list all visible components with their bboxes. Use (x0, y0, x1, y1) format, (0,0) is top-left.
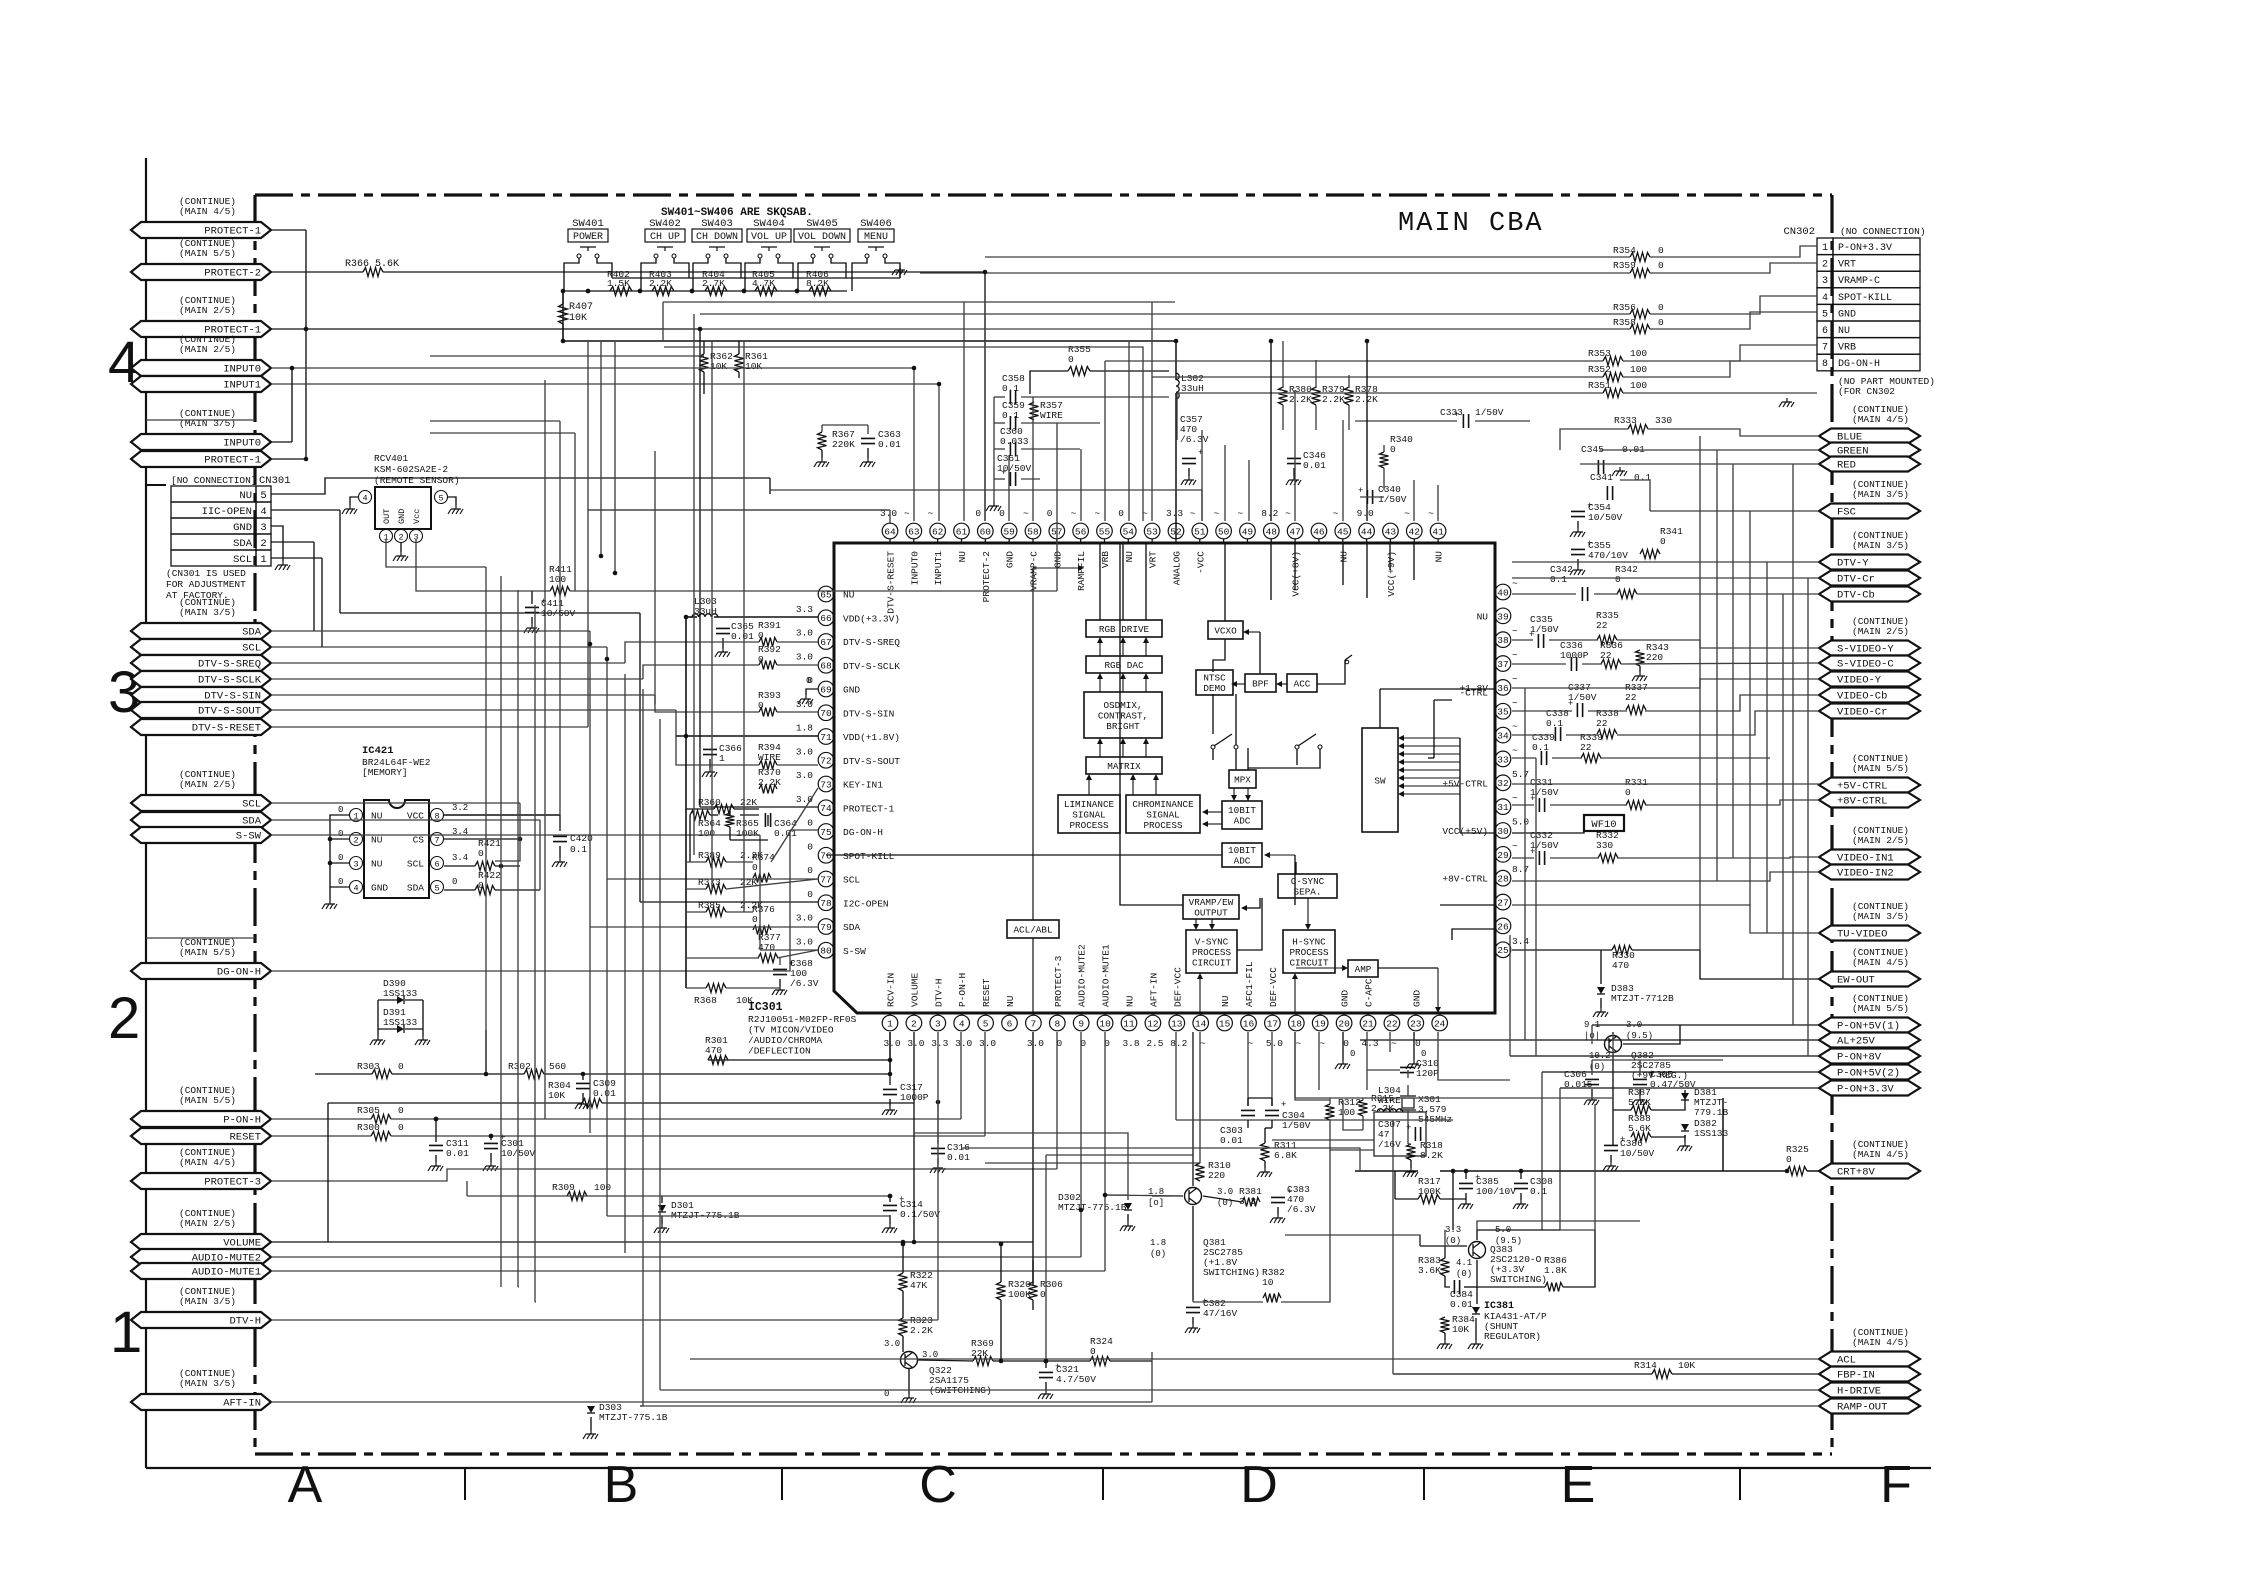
svg-text:PROCESS: PROCESS (1143, 820, 1182, 831)
wire pin13 drop (1175, 1032, 1177, 1120)
svg-text:CIRCUIT: CIRCUIT (1192, 957, 1231, 968)
switch transfer gate A (1211, 734, 1238, 760)
svg-text:17: 17 (1267, 1018, 1278, 1029)
svg-text:~: ~ (1428, 508, 1434, 519)
svg-text:[MEMORY]: [MEMORY] (362, 767, 408, 778)
resistor R365 100K (726, 813, 760, 839)
svg-text:470/10V: 470/10V (1588, 550, 1628, 561)
svg-text:5.0: 5.0 (1266, 1038, 1283, 1049)
wire PROTECT-1 main2/5 (271, 328, 306, 330)
wire vdd 1.8 rail (676, 735, 818, 737)
wire DTV-S-SREQ (271, 642, 818, 663)
svg-text:GND: GND (371, 883, 388, 894)
node EW-OUT (right tag) (1819, 947, 1920, 987)
svg-text:DEMO: DEMO (1203, 683, 1226, 694)
wire q383 collector run (1560, 1104, 1595, 1230)
svg-text:AFC1-FIL: AFC1-FIL (1244, 961, 1255, 1007)
svg-text:15: 15 (1219, 1018, 1231, 1029)
svg-text:RCV401: RCV401 (374, 453, 409, 464)
svg-text:21: 21 (1362, 1018, 1374, 1029)
svg-text:(MAIN 5/5): (MAIN 5/5) (1852, 1003, 1909, 1014)
node PROTECT-3 (left tag) (131, 1147, 271, 1189)
svg-text:+5V-CTRL: +5V-CTRL (1442, 778, 1488, 789)
node S-VIDEO-C (right tag) (1819, 656, 1920, 671)
switch SW403 CH DOWN (692, 218, 742, 258)
resistor R391 0 (758, 620, 781, 647)
svg-text:+: + (1001, 468, 1006, 478)
svg-text:72: 72 (820, 756, 832, 767)
svg-text:RAMP-OUT: RAMP-OUT (1837, 1402, 1887, 1414)
svg-text:3.3: 3.3 (1166, 508, 1183, 519)
svg-text:PROCESS: PROCESS (1192, 947, 1231, 958)
capacitor C359 0.1 (1002, 400, 1025, 430)
svg-text:2.2K: 2.2K (910, 1325, 933, 1336)
svg-text:GND: GND (1005, 551, 1016, 568)
wire mid cross y347 (664, 347, 1143, 521)
wire mute rows to Q381 (1105, 1195, 1183, 1196)
node CRT+8V (right tag) (1819, 1139, 1920, 1179)
switch SW405 VOL DOWN (794, 218, 850, 258)
svg-text:~: ~ (904, 508, 910, 519)
block LIMINANCE SIGNAL PROCESS (1058, 795, 1120, 833)
wire CN301 SCL (271, 558, 322, 647)
svg-text:0: 0 (758, 654, 764, 665)
svg-text:VCC(+8V): VCC(+8V) (1291, 551, 1302, 597)
capacitor C342 0.1 (1550, 564, 1588, 601)
svg-text:2: 2 (260, 538, 266, 550)
svg-text:10/50V: 10/50V (1620, 1148, 1655, 1159)
svg-text:CS: CS (413, 835, 425, 846)
svg-text:EW-OUT: EW-OUT (1837, 975, 1875, 987)
svg-text:50: 50 (1218, 526, 1230, 537)
svg-text:100K: 100K (736, 828, 759, 839)
svg-text:NU: NU (1220, 995, 1231, 1007)
svg-text:0.033: 0.033 (1000, 436, 1029, 447)
block ACC (1287, 674, 1317, 692)
wire R362 R361 columns (704, 341, 739, 394)
svg-text:10BIT: 10BIT (1228, 805, 1256, 816)
resistor R357 WIRE (1030, 400, 1064, 421)
svg-text:DG-ON-H: DG-ON-H (843, 827, 883, 838)
capacitor C338 0.1 (1546, 708, 1569, 741)
wire R380 R379 R378 tops (1283, 341, 1349, 430)
svg-text:43: 43 (1385, 526, 1397, 537)
svg-text:47: 47 (1289, 526, 1300, 537)
svg-text:1: 1 (260, 554, 266, 566)
svg-text:1/50V: 1/50V (1282, 1120, 1311, 1131)
wire R407 column (562, 291, 564, 341)
svg-text:+: + (1587, 501, 1592, 511)
wire bottom cross y1133b (914, 1133, 1128, 1200)
svg-text:VCXO: VCXO (1214, 625, 1237, 636)
svg-text:0.1: 0.1 (570, 844, 587, 855)
svg-text:VOL DOWN: VOL DOWN (798, 232, 846, 243)
svg-text:1: 1 (1822, 243, 1828, 254)
wire IC421 pin5 SDA (444, 877, 540, 890)
svg-text:(MAIN 4/5): (MAIN 4/5) (179, 206, 236, 217)
svg-text:+: + (1529, 630, 1534, 640)
node DTV-S-RESET (left tag) (131, 719, 271, 735)
wire right bundle verticals (1700, 436, 1783, 979)
resistor R383 3.6K (1418, 1255, 1450, 1276)
svg-text:+: + (1454, 410, 1459, 420)
wire SPOT-KILL net (693, 314, 695, 855)
svg-text:INPUT1: INPUT1 (933, 551, 944, 586)
svg-text:(MAIN 5/5): (MAIN 5/5) (1852, 763, 1909, 774)
svg-text:C333: C333 (1440, 407, 1463, 418)
wire pon33 run (1477, 1221, 1640, 1230)
wire BLUE net (1560, 429, 1819, 450)
resistor R362 10K (700, 351, 734, 372)
svg-text:44: 44 (1361, 526, 1373, 537)
svg-text:1.8K: 1.8K (1544, 1265, 1567, 1276)
wire pin24 amp (1438, 1032, 1510, 1080)
capacitor C339 0.1 (1532, 732, 1555, 765)
wire pin23 gnd (1413, 1032, 1415, 1060)
svg-text:2.2K: 2.2K (1371, 1103, 1394, 1114)
svg-text:23: 23 (1410, 1018, 1422, 1029)
svg-text:PROTECT-2: PROTECT-2 (981, 551, 992, 603)
wire AFT-IN (271, 1361, 1152, 1402)
svg-text:CN301: CN301 (259, 475, 291, 487)
svg-text:VRB: VRB (1100, 551, 1111, 568)
resistor R324 0 (1090, 1336, 1113, 1366)
svg-text:0.1: 0.1 (1634, 472, 1651, 483)
block VRAMP/EW OUTPUT (1183, 895, 1239, 919)
node RED (right tag) (1819, 457, 1920, 472)
svg-text:DG-ON-H: DG-ON-H (1838, 359, 1880, 370)
svg-text:9: 9 (1078, 1018, 1084, 1029)
svg-text:60: 60 (980, 526, 992, 537)
svg-text:R2J10051-M02FP-RF0S: R2J10051-M02FP-RF0S (748, 1014, 857, 1025)
svg-text:330: 330 (1596, 840, 1613, 851)
svg-text:5: 5 (434, 884, 439, 894)
svg-text:38: 38 (1497, 635, 1509, 646)
svg-text:[o]: [o] (1148, 1198, 1164, 1208)
wire VCXO net (1213, 543, 1260, 674)
svg-text:2.5: 2.5 (1146, 1038, 1163, 1049)
node PROTECT-2 (left tag) (131, 238, 271, 280)
svg-text:MTZJT-775.1B: MTZJT-775.1B (1058, 1202, 1127, 1213)
resistor R311 6.8K (1257, 1140, 1297, 1177)
svg-text:INPUT0: INPUT0 (223, 364, 261, 376)
wire pin49 col (1248, 460, 1250, 521)
wire switch legs (564, 258, 900, 291)
wire ADC2 net (826, 852, 1295, 905)
svg-text:22: 22 (1580, 742, 1592, 753)
svg-text:(MAIN 2/5): (MAIN 2/5) (1852, 835, 1909, 846)
svg-text:MATRIX: MATRIX (1107, 761, 1141, 772)
svg-text:59: 59 (1003, 526, 1015, 537)
wire C310 C305 C306 row (1592, 1060, 1723, 1075)
svg-text:DTV-H: DTV-H (229, 1316, 261, 1328)
svg-text:+: + (1281, 1100, 1286, 1110)
resistor R376 0 (752, 904, 775, 935)
diode D382 1SS133 (1677, 1118, 1729, 1151)
svg-text:24: 24 (1434, 1018, 1446, 1029)
svg-text:120P: 120P (1416, 1068, 1439, 1079)
svg-text:PROTECT-1: PROTECT-1 (204, 455, 261, 467)
ground pin20 (1335, 1049, 1355, 1069)
svg-text:AFT-IN: AFT-IN (223, 1398, 261, 1410)
wire pin20 gnd (1342, 1032, 1344, 1060)
svg-text:36: 36 (1497, 683, 1509, 694)
node DTV-Y (right tag) (1819, 530, 1920, 570)
node INPUT0 (left tag) (131, 408, 271, 450)
svg-text:DTV-S-SOUT: DTV-S-SOUT (198, 706, 261, 718)
svg-text:220K: 220K (832, 439, 855, 450)
resistor R402 1.5K (607, 269, 632, 296)
svg-text:3.3: 3.3 (931, 1038, 948, 1049)
svg-text:0: 0 (1625, 787, 1631, 798)
svg-text:P-ON-H: P-ON-H (957, 973, 968, 1007)
resistor R341 0 (1640, 526, 1683, 559)
svg-text:22: 22 (1625, 692, 1637, 703)
svg-text:25: 25 (1497, 945, 1509, 956)
transistor Q382 2SC2785 (1584, 1020, 1688, 1081)
wire R359 net (920, 263, 1817, 273)
svg-text:100K: 100K (1008, 1289, 1031, 1300)
wire colB verticals (545, 341, 744, 1119)
svg-text:NTSC: NTSC (1203, 673, 1226, 684)
svg-text:DTV-S-SOUT: DTV-S-SOUT (843, 756, 900, 767)
svg-text:R368: R368 (694, 995, 717, 1006)
wire pin37 svideo-c (1512, 663, 1819, 664)
wire CN301 SDA (271, 542, 314, 631)
svg-text:6: 6 (1007, 1018, 1013, 1029)
svg-text:/16V: /16V (1378, 1139, 1401, 1150)
resistor R323 2.2K (899, 1315, 934, 1336)
wire pin55 col (1104, 361, 1106, 521)
svg-text:47/16V: 47/16V (1203, 1308, 1238, 1319)
svg-text:1: 1 (110, 1300, 142, 1365)
svg-text:OUTPUT: OUTPUT (1194, 908, 1228, 919)
svg-text:3.0: 3.0 (796, 913, 813, 924)
ground pin69 (798, 676, 818, 704)
resistor R301 470 (705, 1035, 728, 1065)
svg-text:(MAIN 5/5): (MAIN 5/5) (179, 947, 236, 958)
resistor R305 0 (357, 1105, 404, 1124)
svg-text:0.01: 0.01 (878, 439, 901, 450)
wire bus cross B (430, 355, 704, 357)
inductor L303 33uH (692, 596, 718, 617)
svg-text:3.4: 3.4 (452, 853, 468, 863)
svg-text:R353: R353 (1588, 348, 1611, 359)
svg-text:330: 330 (1655, 415, 1672, 426)
capacitor C333 1/50V (1440, 407, 1504, 428)
svg-text:8.2K: 8.2K (1420, 1150, 1443, 1161)
svg-text:VCC(+9V): VCC(+9V) (1386, 551, 1397, 597)
svg-text:SW405: SW405 (806, 218, 838, 230)
svg-text:D: D (1240, 1456, 1278, 1514)
svg-text:SW402: SW402 (649, 218, 681, 230)
capacitor C340 1/50V (1358, 484, 1407, 505)
block 10BIT ADC lower (1222, 843, 1262, 867)
svg-text:VRB: VRB (1838, 343, 1856, 354)
svg-text:+8V-CTRL: +8V-CTRL (1837, 796, 1887, 808)
wire FSC net (1620, 480, 1819, 511)
svg-text:RAMPFIL: RAMPFIL (1076, 551, 1087, 591)
svg-text:10K: 10K (569, 313, 587, 324)
block RGB DAC (1086, 656, 1162, 673)
svg-text:(0): (0) (1445, 1236, 1461, 1246)
svg-text:10: 10 (1099, 1018, 1111, 1029)
svg-text:RCV-IN: RCV-IN (886, 973, 897, 1007)
svg-text:RESET: RESET (229, 1132, 261, 1144)
resistor R406 8.2K (806, 269, 831, 296)
wire DTV-S-SOUT (271, 710, 818, 765)
svg-text:1: 1 (887, 1018, 893, 1029)
svg-text:34: 34 (1497, 731, 1509, 742)
svg-text:SIGNAL: SIGNAL (1146, 809, 1179, 820)
svg-text:DTV-H: DTV-H (933, 978, 944, 1007)
resistor R380 2.2K (1279, 384, 1313, 405)
block SW (1362, 728, 1398, 832)
svg-text:SCL: SCL (843, 875, 860, 886)
grid column label D (1240, 1456, 1278, 1514)
svg-text:10K: 10K (736, 995, 753, 1006)
svg-text:DG-ON-H: DG-ON-H (217, 967, 261, 979)
wire q381 r382 run (1193, 1150, 1330, 1302)
node DTV-S-SOUT (left tag) (131, 702, 271, 718)
svg-text:0: 0 (1421, 1049, 1426, 1059)
svg-text:VIDEO-Cb: VIDEO-Cb (1837, 691, 1887, 703)
wire Q381 base row (1152, 1196, 1242, 1202)
capacitor C364 0.01 (765, 813, 797, 839)
IC301 left pin names (796, 590, 900, 957)
svg-text:10K: 10K (548, 1090, 565, 1101)
wire C340 R340 (1360, 445, 1384, 497)
resistor R356 0 (1613, 302, 1664, 319)
resistor R338 22 (1596, 708, 1619, 739)
svg-text:SCL: SCL (242, 799, 261, 811)
svg-text:MPX: MPX (1234, 774, 1251, 785)
svg-text:GND: GND (1411, 990, 1422, 1007)
svg-text:TU-VIDEO: TU-VIDEO (1837, 929, 1887, 941)
wire r383 col (1420, 1230, 1445, 1258)
svg-text:(MAIN 2/5): (MAIN 2/5) (179, 779, 236, 790)
node VIDEO-Cr (right tag) (1819, 704, 1920, 719)
svg-text:H-SYNC: H-SYNC (1292, 936, 1326, 947)
resistor R355 0 (1068, 344, 1091, 376)
grid column label C (919, 1456, 957, 1514)
block MATRIX (1086, 757, 1162, 774)
wire pin57 col (1056, 423, 1058, 521)
svg-text:KEY-IN1: KEY-IN1 (843, 780, 883, 791)
svg-text:NU: NU (1434, 551, 1445, 563)
svg-text:NU: NU (957, 551, 968, 563)
svg-text:13: 13 (1171, 1018, 1183, 1029)
svg-text:~: ~ (1512, 745, 1518, 756)
svg-text:3.0: 3.0 (884, 1339, 900, 1349)
resistor R337 22 (1625, 682, 1648, 715)
svg-text:R303: R303 (357, 1061, 380, 1072)
diode D381 MTZJT-779.1B (1681, 1087, 1729, 1118)
svg-text:(MAIN 4/5): (MAIN 4/5) (1852, 1149, 1909, 1160)
wire mid cross y505 (588, 509, 890, 511)
switch SW401 POWER (568, 218, 608, 258)
svg-text:0.01: 0.01 (947, 1152, 970, 1163)
svg-text:0: 0 (1090, 1346, 1096, 1357)
svg-text:55: 55 (1099, 526, 1111, 537)
svg-text:~: ~ (1237, 508, 1243, 519)
svg-text:0.01: 0.01 (1220, 1135, 1243, 1146)
wire q383 base run (1285, 1235, 1420, 1246)
svg-text:100: 100 (594, 1182, 611, 1193)
svg-text:0: 0 (1658, 317, 1664, 328)
svg-text:~: ~ (1190, 508, 1196, 519)
svg-text:4: 4 (353, 884, 358, 894)
svg-text:MTZJT-7712B: MTZJT-7712B (1611, 993, 1674, 1004)
svg-text:RGB DRIVE: RGB DRIVE (1099, 624, 1150, 635)
svg-text:100: 100 (549, 574, 566, 585)
svg-text:5: 5 (1822, 309, 1828, 320)
resistor R342 0 (1615, 564, 1638, 599)
wire right power verticals (1510, 935, 1592, 1230)
IC301 right pin circles 40..25 (1495, 584, 1511, 957)
svg-text:SDA: SDA (843, 922, 860, 933)
svg-text:ACC: ACC (1294, 678, 1311, 689)
svg-text:76: 76 (820, 851, 832, 862)
wire bottom mid y1140 (1272, 1139, 1374, 1141)
grid column label B (604, 1456, 639, 1514)
grid row label 3 (108, 660, 140, 725)
wire pin35 video-cb (1512, 695, 1819, 711)
svg-text:~: ~ (1404, 508, 1410, 519)
svg-text:NU: NU (1838, 326, 1850, 337)
svg-text:AUDIO-MUTE1: AUDIO-MUTE1 (1101, 944, 1112, 1007)
IC301 bottom pin circles 1..24 (882, 1013, 1447, 1031)
svg-text:78: 78 (820, 898, 832, 909)
svg-text:100/10V: 100/10V (1476, 1186, 1516, 1197)
svg-text:0: 0 (807, 841, 813, 852)
svg-text:SDA: SDA (233, 538, 253, 550)
capacitor C321 4.7/50V (1038, 1359, 1096, 1399)
svg-text:[NO CONNECTION]: [NO CONNECTION] (171, 475, 257, 486)
node SDA (left tag) (131, 812, 271, 828)
wire pin53 col (1152, 302, 1177, 521)
svg-text:~: ~ (1512, 650, 1518, 661)
resistor R378 2.2K (1345, 384, 1379, 405)
capacitor C301 10/50V (483, 1133, 536, 1171)
wire R354 net (985, 246, 1817, 257)
wire pins 47-44 interior (1271, 543, 1367, 600)
svg-text:(MAIN 3/5): (MAIN 3/5) (1852, 911, 1909, 922)
resistor R354 0 (1613, 245, 1664, 262)
svg-text:1: 1 (719, 753, 725, 764)
svg-text:22: 22 (1596, 620, 1608, 631)
svg-text:(MAIN 2/5): (MAIN 2/5) (179, 344, 236, 355)
svg-text:1SS133: 1SS133 (383, 988, 418, 999)
wire Q382 cluster (1613, 1025, 1685, 1145)
wire MPX to ADC (1231, 788, 1251, 801)
wire R377 row (686, 950, 818, 958)
svg-text:0: 0 (807, 889, 813, 900)
svg-text:NU: NU (1124, 551, 1135, 563)
resistor R368 10K (694, 984, 753, 1007)
capacitor C420 0.1 (552, 815, 593, 867)
svg-text:3.0: 3.0 (1027, 1038, 1044, 1049)
svg-text:DTV-S-RESET: DTV-S-RESET (192, 723, 261, 735)
svg-text:NU: NU (1005, 995, 1016, 1007)
wire pin17 drop (1271, 1032, 1273, 1106)
svg-text:VRAMP-C: VRAMP-C (1028, 551, 1039, 591)
inductor L304 WIRE (1374, 1085, 1426, 1156)
wire bottom long A (607, 1215, 890, 1217)
connector CN301 (166, 475, 291, 601)
resistor R369 22K (971, 1338, 994, 1366)
wire switch resistor bus y291 (564, 289, 847, 294)
